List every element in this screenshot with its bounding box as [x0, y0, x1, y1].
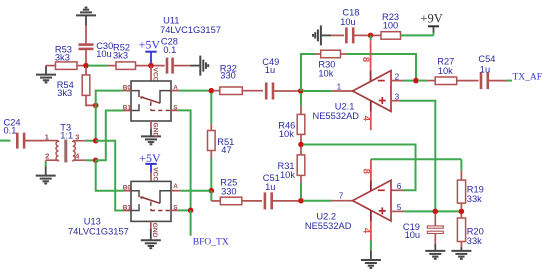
ground left of C18 (sideways): [313, 25, 331, 45]
node junction C51/R31/U2.2 in: [298, 198, 304, 204]
svg-text:8: 8: [360, 169, 371, 174]
svg-text:10u: 10u: [96, 49, 112, 59]
resistor R19: [457, 159, 483, 209]
svg-text:47: 47: [221, 145, 231, 155]
node junction R53/C30/R52/R54: [83, 63, 89, 69]
resistor R27: [418, 57, 479, 85]
svg-text:7: 7: [339, 191, 344, 200]
pin VCC U11: [151, 66, 158, 82]
resistor R54: [57, 67, 94, 105]
power +5V (top): [139, 37, 161, 64]
svg-text:+5V: +5V: [139, 151, 161, 165]
svg-text:33k: 33k: [467, 236, 482, 246]
pin 4 U2.1 stub: [360, 100, 371, 130]
svg-text:10k: 10k: [280, 170, 295, 180]
capacitor C28: [153, 37, 190, 74]
pin 6 U2.2 lead: [392, 189, 403, 191]
wire U13.A to node: [181, 190, 210, 192]
pin VCC U13: [151, 167, 158, 181]
wire BFO_TX stub: [190, 210, 192, 235]
ground below T3 pin 2: [36, 162, 56, 184]
wire node down to T3.3 junction: [95, 105, 97, 140]
node junction R54/U11.B0/T3.3: [93, 103, 99, 109]
node junction pin2/R30/R27: [413, 78, 419, 84]
svg-text:330: 330: [221, 186, 237, 196]
svg-text:1: 1: [337, 83, 342, 92]
svg-text:1u: 1u: [480, 65, 490, 75]
svg-text:R19: R19: [467, 185, 484, 195]
resistor R30: [315, 50, 347, 78]
mux U13 74LVC1G3157 body: [131, 181, 171, 221]
capacitor C19: [403, 214, 443, 251]
svg-text:3k3: 3k3: [57, 88, 72, 98]
svg-text:C54: C54: [478, 54, 495, 64]
capacitor C49: [262, 57, 298, 100]
svg-text:TX_AF: TX_AF: [513, 72, 543, 82]
svg-text:100: 100: [383, 21, 399, 31]
node junction U11.A/R32/R51: [209, 88, 215, 94]
svg-text:8: 8: [360, 57, 371, 62]
pin 8 U2.1 power lead: [360, 35, 371, 81]
svg-text:10k: 10k: [279, 129, 294, 139]
svg-text:74LVC1G3157: 74LVC1G3157: [160, 25, 221, 35]
node junction C49/R46/R30/U2.1 out: [298, 88, 304, 94]
svg-text:U13: U13: [84, 216, 101, 226]
resistor R25: [211, 177, 262, 204]
svg-text:3k3: 3k3: [113, 51, 128, 61]
wire node to U2.2 pin7: [303, 200, 332, 202]
wire T3.3 across to U13.B1: [96, 141, 123, 211]
svg-text:U2.1: U2.1: [335, 101, 355, 111]
capacitor C51: [263, 173, 299, 209]
svg-text:10u: 10u: [340, 17, 356, 27]
pin GND U13 + ground below U13: [141, 221, 161, 248]
resistor R53: [46, 44, 85, 69]
capacitor C18: [331, 8, 369, 44]
svg-text:VCC: VCC: [151, 68, 158, 82]
IC U13 designator labels: [68, 216, 129, 236]
node junction C18/R23/U2.1 pin8: [368, 33, 374, 39]
pin GND U11 + ground below U11: [141, 121, 161, 144]
svg-text:3: 3: [395, 92, 400, 101]
pin 5 U2.2 lead: [391, 203, 460, 212]
wire U13.S to select line: [178, 209, 191, 211]
pin 8 U2.2 power lead: [360, 159, 461, 191]
svg-text:0.1: 0.1: [163, 45, 176, 55]
ground below R20: [451, 251, 471, 259]
pin 1 U2.1 lead: [332, 90, 353, 92]
svg-text:10k: 10k: [318, 68, 333, 78]
node junction +5V/R52/C28/U11.VCC: [148, 63, 154, 69]
ground below C19: [425, 251, 445, 259]
svg-text:330: 330: [220, 71, 236, 81]
wire node to U2.1 pin1: [303, 90, 332, 92]
svg-text:+5V: +5V: [139, 37, 161, 51]
power +9V: [420, 11, 442, 35]
resistor R23: [373, 12, 434, 39]
svg-text:1: 1: [45, 132, 49, 141]
svg-text:A: A: [173, 183, 178, 190]
power +5V (U13): [139, 151, 161, 173]
wire R30 to pin2 node: [347, 54, 417, 79]
svg-text:5: 5: [397, 203, 402, 212]
resistor R31: [278, 147, 305, 199]
wire T3.4 down to U13.B0: [96, 160, 123, 190]
op-amp U2.2: [305, 180, 391, 231]
resistor R51: [208, 93, 235, 189]
pin 7 U2.2 lead: [332, 200, 353, 202]
node junction R19/R20/pin5: [459, 209, 465, 215]
wire U11.S down select line: [178, 110, 191, 210]
ground left of R53: [36, 66, 56, 83]
pin 3 U2.1 lead: [391, 92, 435, 210]
svg-text:NE5532AD: NE5532AD: [313, 111, 360, 121]
pin A U11 lead: [171, 90, 179, 92]
svg-text:1:1: 1:1: [60, 130, 73, 140]
pin A U13 lead: [171, 190, 181, 192]
resistor R46: [278, 93, 305, 143]
op IC U11 74LVC1G3157 designator labels: [160, 16, 221, 36]
svg-text:VCC: VCC: [151, 167, 158, 181]
svg-text:33k: 33k: [467, 194, 482, 204]
node junction R46/R31/U2.2 pin6 net: [298, 142, 304, 148]
svg-text:4: 4: [360, 116, 371, 122]
svg-text:+9V: +9V: [420, 11, 442, 25]
capacitor C30: [79, 26, 114, 65]
mux U11 74LVC1G3157 body: [131, 81, 171, 121]
wire junction to R52: [88, 65, 108, 67]
svg-text:2: 2: [45, 151, 49, 160]
wire node up to U11.B0: [96, 91, 123, 106]
capacitor C24: [0, 118, 44, 149]
pin B1 U13 lead: [123, 210, 131, 212]
wire T3.3 to node: [85, 140, 94, 142]
pin 4 U2.2 lead + ground: [361, 210, 381, 268]
svg-text:B1: B1: [123, 205, 132, 212]
ground top (flipped earth above C30): [76, 7, 96, 25]
pin S U13 lead: [171, 209, 178, 211]
node junction select/BFO_TX: [188, 208, 194, 214]
svg-text:B0: B0: [123, 185, 132, 192]
resistor R52: [108, 43, 150, 70]
svg-text:GND: GND: [151, 223, 158, 238]
node junction pin3 net / pin5: [433, 209, 439, 215]
transformer T3: [44, 122, 85, 162]
node junction T3.4: [93, 158, 99, 164]
pin B0 U13 lead: [123, 190, 131, 192]
wire U11.A to R32 node: [179, 90, 210, 92]
svg-text:U11: U11: [163, 16, 179, 26]
svg-text:10k: 10k: [438, 66, 453, 76]
wire C49 node up to R30: [301, 54, 315, 91]
svg-text:3k3: 3k3: [55, 53, 70, 63]
node junction T3.3: [93, 138, 99, 144]
pin 2 U2.1 lead: [391, 72, 414, 81]
svg-text:4: 4: [361, 228, 372, 234]
resistor R32: [213, 63, 263, 94]
svg-text:10u: 10u: [405, 230, 421, 240]
wire T3.4 to node: [85, 159, 94, 161]
svg-text:R20: R20: [467, 226, 484, 236]
svg-text:1u: 1u: [265, 182, 275, 192]
svg-text:3: 3: [75, 132, 79, 141]
pin B1 U11 lead: [123, 110, 131, 112]
node junction U13.A/R51/R25: [209, 188, 215, 194]
wire node down to R25: [210, 191, 212, 201]
svg-text:GND: GND: [151, 123, 158, 138]
svg-text:0.1: 0.1: [4, 126, 17, 136]
svg-text:74LVC1G3157: 74LVC1G3157: [68, 226, 129, 236]
op-amp U2.1: [313, 71, 392, 121]
ground right of C28 (sideways): [190, 56, 208, 76]
pin B0 U11 lead: [123, 90, 131, 92]
wire T3.4 up to U11.B1: [96, 111, 123, 161]
capacitor C54: [478, 54, 512, 89]
svg-text:1u: 1u: [265, 65, 275, 75]
svg-text:U2.2: U2.2: [316, 211, 336, 221]
svg-text:BFO_TX: BFO_TX: [193, 237, 229, 247]
svg-text:NE5532AD: NE5532AD: [305, 221, 352, 231]
pin S U11 lead: [171, 109, 178, 111]
svg-text:2: 2: [395, 72, 400, 81]
resistor R20: [457, 214, 483, 251]
wire pin6 net to U2.2: [303, 145, 416, 191]
svg-text:6: 6: [397, 182, 402, 191]
